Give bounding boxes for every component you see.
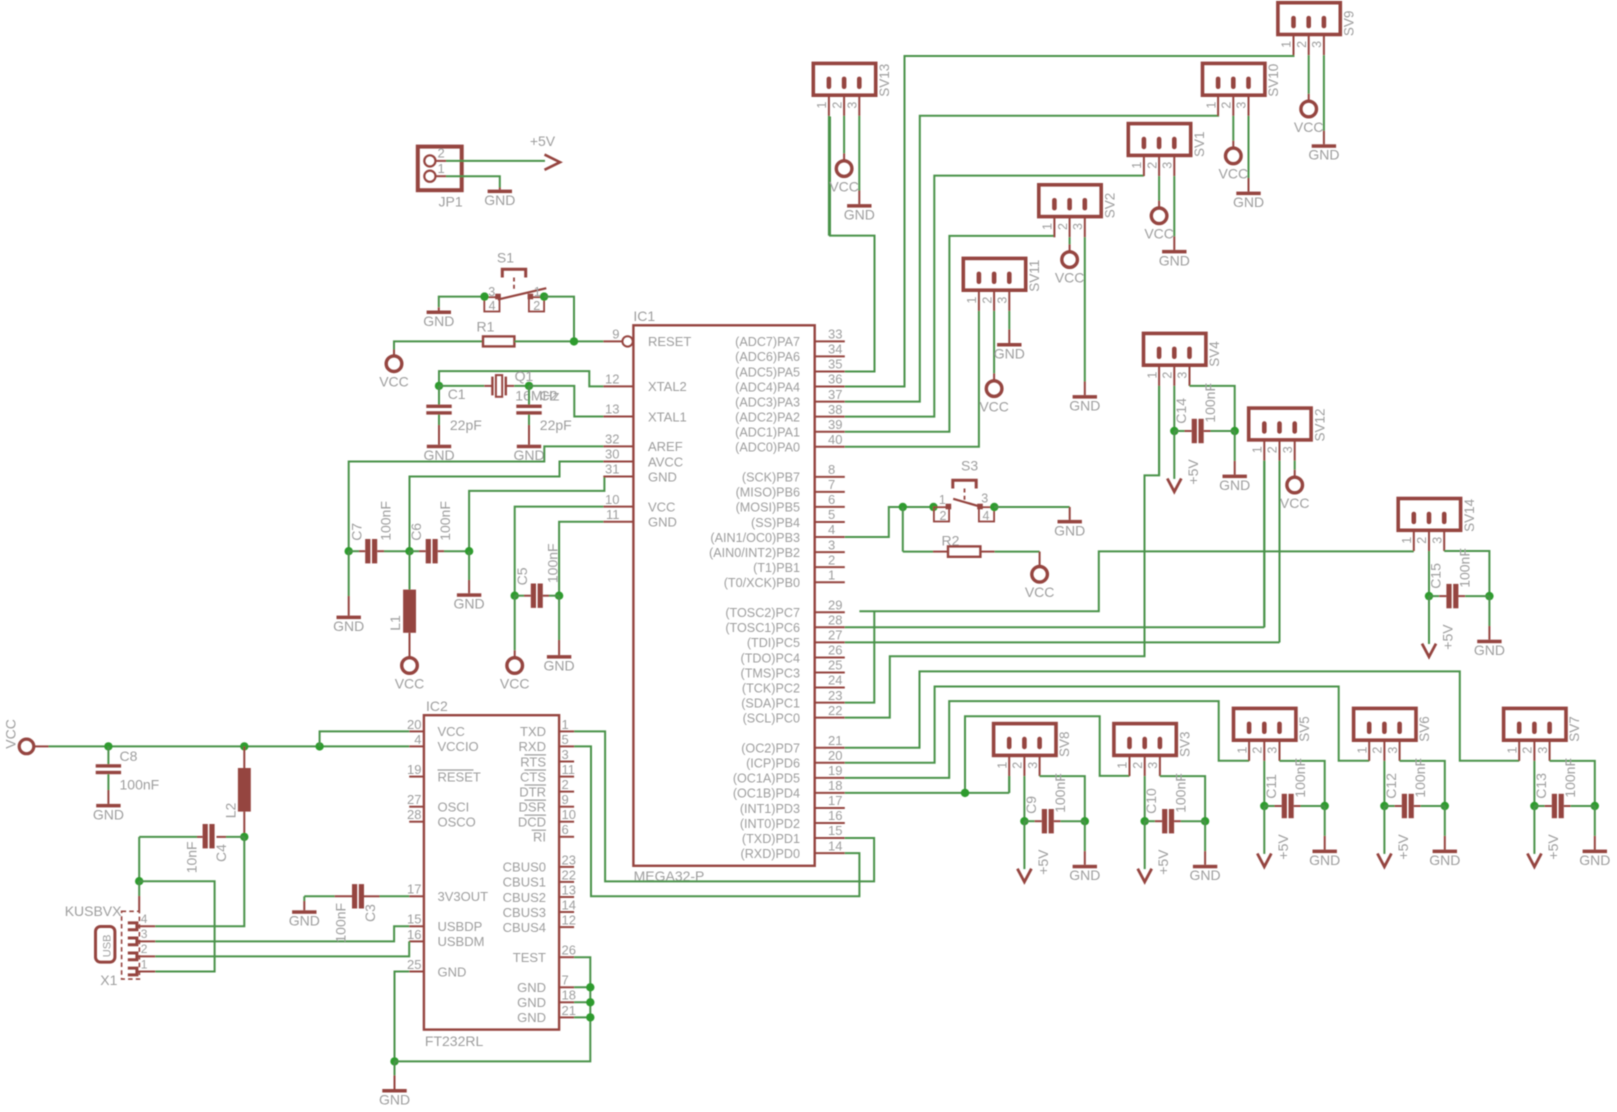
svg-text:100nF: 100nF — [120, 776, 160, 792]
junction dot C13 left — [1530, 802, 1538, 810]
junction dot C5 left — [511, 592, 519, 600]
crystal Q1 — [484, 385, 492, 387]
X1 pad 3 — [128, 938, 137, 945]
SV13 pin stubs — [828, 95, 830, 116]
svg-text:2: 2 — [1415, 537, 1429, 544]
wire SV11.3 to GND — [1008, 311, 1010, 330]
svg-text:26: 26 — [828, 643, 842, 658]
SV6 pin stubs — [1368, 740, 1370, 761]
SV10 pin stubs — [1217, 95, 1219, 116]
svg-text:GND: GND — [517, 980, 546, 995]
svg-text:SV2: SV2 — [1102, 193, 1117, 219]
IC2 pin 5 RXD — [559, 745, 574, 747]
wire C4 left down — [138, 837, 140, 881]
ground symbol below C1 — [427, 445, 451, 449]
svg-text:OSCO: OSCO — [438, 815, 476, 830]
supply +5V below SV5 — [1257, 854, 1271, 867]
IC IC2 FT232RL body — [424, 715, 559, 1029]
junction dot C12 left — [1380, 802, 1388, 810]
svg-text:(AIN1/OC0)PB3: (AIN1/OC0)PB3 — [710, 531, 800, 545]
svg-text:100nF: 100nF — [332, 903, 348, 943]
svg-text:IC1: IC1 — [633, 308, 655, 324]
svg-text:GND: GND — [1054, 522, 1085, 538]
wire C1 to GND — [438, 415, 440, 425]
SV1 pin stubs — [1143, 155, 1145, 176]
wire SV9.2 to VCC — [1308, 55, 1310, 94]
wire to GND symbol — [394, 1061, 396, 1075]
junction dot C6 right — [465, 547, 473, 555]
wire C11 to GND — [1324, 806, 1326, 836]
svg-text:(TCK)PC2: (TCK)PC2 — [742, 681, 800, 695]
svg-text:100nF: 100nF — [544, 543, 560, 583]
wire PA0 to SV11.1 — [845, 311, 979, 447]
svg-text:27: 27 — [828, 628, 842, 643]
svg-text:XTAL2: XTAL2 — [648, 379, 687, 394]
connector SV4 — [1144, 333, 1206, 365]
wire SV4.1 down to SCL bus — [1158, 386, 1160, 476]
ground symbol below C5 — [547, 655, 571, 659]
svg-text:100nF: 100nF — [1052, 773, 1068, 813]
svg-text:GND: GND — [333, 618, 364, 634]
junction dot C4/X1 node — [135, 877, 143, 885]
IC1 pin 2 (T1)PB1 — [815, 566, 845, 568]
junction dot PD4 branch — [961, 789, 969, 797]
svg-text:CBUS3: CBUS3 — [503, 905, 546, 920]
svg-text:22: 22 — [828, 703, 842, 718]
wire C10 to GND — [1204, 821, 1206, 851]
svg-text:GND: GND — [1579, 852, 1610, 868]
ground symbol below SV10 — [1236, 192, 1260, 196]
wire GND7 stub — [574, 986, 590, 988]
svg-text:SV11: SV11 — [1027, 260, 1042, 292]
svg-text:2: 2 — [1161, 372, 1175, 379]
svg-text:SV6: SV6 — [1417, 716, 1432, 742]
svg-text:SV14: SV14 — [1462, 498, 1477, 532]
S3 contact box pin 1/2 — [934, 507, 949, 521]
svg-text:RTS: RTS — [520, 754, 546, 769]
svg-text:(ADC2)PA2: (ADC2)PA2 — [735, 410, 800, 424]
wire XTAL2 net — [439, 371, 603, 386]
wire PC6 to SV12.1 — [845, 626, 1265, 628]
svg-text:9: 9 — [612, 327, 619, 342]
supply +5V below SV8 — [1017, 869, 1031, 882]
svg-text:3: 3 — [981, 491, 988, 505]
svg-text:(TMS)PC3: (TMS)PC3 — [741, 666, 800, 680]
wire GND18 stub — [574, 1001, 590, 1003]
wire XTAL1 net — [529, 386, 603, 417]
svg-text:DTR: DTR — [519, 784, 546, 799]
svg-text:(TOSC2)PC7: (TOSC2)PC7 — [725, 606, 800, 620]
svg-text:30: 30 — [605, 447, 619, 462]
ground symbol below SV2 — [1073, 395, 1097, 399]
supply +5V below SV7 — [1527, 854, 1541, 867]
svg-text:3: 3 — [1235, 102, 1249, 109]
SV3 pin stubs — [1129, 755, 1131, 776]
IC1 pin 38 (ADC2)PA2 — [815, 416, 845, 418]
svg-text:VCCIO: VCCIO — [438, 739, 479, 754]
ground symbol below C13 — [1583, 850, 1607, 854]
wire SV3.2 to cap — [1144, 776, 1146, 821]
svg-text:VCC: VCC — [1055, 269, 1085, 285]
IC1 pin 12 XTAL2 — [603, 385, 633, 387]
junction dot C11 right — [1321, 802, 1329, 810]
svg-text:2: 2 — [1521, 747, 1535, 754]
svg-text:GND: GND — [454, 596, 485, 612]
IC2 pin 9 DSR — [559, 806, 574, 808]
svg-text:2: 2 — [1266, 446, 1280, 453]
ground symbol below C8 — [96, 804, 120, 808]
svg-text:2: 2 — [940, 509, 947, 523]
wire C13 to +5V — [1533, 806, 1535, 854]
wire C15 to GND — [1488, 596, 1490, 626]
svg-text:+5V: +5V — [530, 133, 556, 149]
IC2 pin 25 GND — [409, 971, 424, 973]
IC1 pin 33 (ADC7)PA7 — [815, 340, 845, 342]
IC2 pin 20 VCC — [409, 730, 424, 732]
wire PD4 to SV8.1 and SV3.1 — [845, 792, 1009, 794]
connector SV2 — [1039, 185, 1101, 217]
wire SV3.3 to cap right — [1160, 776, 1205, 821]
svg-text:8: 8 — [828, 462, 835, 477]
junction dot C7 left — [345, 547, 353, 555]
svg-text:S3: S3 — [961, 457, 978, 473]
svg-text:4: 4 — [983, 509, 990, 523]
wire C3 to GND — [303, 896, 305, 901]
supply VCC right of R2 — [1032, 567, 1048, 583]
svg-text:20: 20 — [407, 717, 421, 732]
svg-text:1: 1 — [438, 161, 445, 176]
svg-text:37: 37 — [828, 387, 842, 402]
connector SV14 — [1398, 499, 1460, 531]
IC2 pin 7 GND — [559, 986, 574, 988]
svg-text:USBDM: USBDM — [438, 934, 485, 949]
USB symbol — [96, 927, 115, 963]
supply VCC below SV13 — [836, 161, 852, 177]
IC1 pin 24 (TCK)PC2 — [815, 687, 845, 689]
svg-text:VCC: VCC — [829, 178, 859, 194]
wire C5 right to GND — [558, 596, 560, 640]
svg-text:14: 14 — [562, 897, 576, 912]
ground symbol below C11 — [1313, 850, 1337, 854]
wire 3V3OUT to C3 — [380, 895, 410, 897]
IC1 pin 19 (OC1A)PD5 — [815, 777, 845, 779]
svg-text:R1: R1 — [477, 319, 495, 335]
svg-text:2: 2 — [1145, 162, 1159, 169]
IC2 pin 16 USBDM — [409, 940, 424, 942]
wire GND31 net — [469, 477, 604, 552]
supply +5V below SV6 — [1377, 854, 1391, 867]
SV12 pin stubs — [1263, 440, 1265, 461]
svg-text:(INT0)PD2: (INT0)PD2 — [740, 817, 800, 831]
svg-text:3: 3 — [996, 297, 1010, 304]
svg-text:(SS)PB4: (SS)PB4 — [751, 516, 800, 530]
svg-text:10: 10 — [605, 492, 619, 507]
svg-text:GND: GND — [93, 806, 124, 822]
ground symbol below C10 — [1193, 865, 1217, 869]
IC1 pin 3 (AIN0/INT2)PB2 — [815, 551, 845, 553]
wire SV13.3 to GND — [858, 116, 860, 191]
svg-text:36: 36 — [828, 372, 842, 387]
svg-text:GND: GND — [438, 964, 467, 979]
svg-text:(ADC4)PA4: (ADC4)PA4 — [735, 380, 800, 394]
svg-text:4: 4 — [141, 912, 148, 926]
wire X1 pin1 loop — [139, 881, 214, 971]
svg-text:24: 24 — [828, 673, 842, 688]
svg-text:19: 19 — [407, 762, 421, 777]
junction dot S3 pin1 — [929, 503, 937, 511]
S3 contact arrows — [946, 504, 952, 510]
S1 lever — [498, 288, 547, 299]
wire PA2 to SV1.1 — [845, 176, 1144, 417]
wire PD7 to SV7.1 — [845, 671, 1519, 760]
IC1 pin 20 (ICP)PD6 — [815, 762, 845, 764]
svg-text:28: 28 — [407, 807, 421, 822]
svg-text:2: 2 — [1131, 762, 1145, 769]
IC2 pin 14 CBUS3 — [559, 911, 574, 913]
svg-text:22pF: 22pF — [540, 417, 572, 433]
wire C10 to +5V — [1144, 821, 1146, 869]
wire GND pin11 net — [559, 522, 603, 596]
junction dot VCC20 jog — [315, 742, 323, 750]
wire VCC to R1 — [393, 350, 395, 357]
svg-text:17: 17 — [407, 882, 421, 897]
wire C12 to +5V — [1383, 806, 1385, 854]
svg-text:GND: GND — [1309, 852, 1340, 868]
SV13 pin1 wire down — [828, 116, 830, 236]
svg-text:SV12: SV12 — [1312, 408, 1327, 441]
svg-text:(TDO)PC4: (TDO)PC4 — [741, 651, 800, 665]
svg-text:3: 3 — [828, 537, 835, 552]
junction dot C15 left — [1425, 592, 1433, 600]
svg-text:100nF: 100nF — [1457, 548, 1473, 588]
svg-text:3: 3 — [1026, 762, 1040, 769]
wire C14 to GND — [1234, 431, 1236, 461]
wire SV5.2 to cap — [1263, 761, 1265, 806]
S1 contact arrows — [495, 294, 501, 300]
X1 pad 1 — [128, 968, 137, 975]
IC2 pin 3 RTS — [559, 761, 574, 763]
svg-text:C4: C4 — [213, 844, 229, 862]
wire SV13.2 to VCC — [843, 116, 845, 153]
junction dot C8 tap — [104, 742, 112, 750]
wire R1 to IC1 RESET — [514, 340, 603, 342]
svg-text:+5V: +5V — [1035, 849, 1051, 875]
wire SV12.3 to VCC — [1294, 461, 1296, 470]
svg-text:(ADC5)PA5: (ADC5)PA5 — [735, 365, 800, 379]
IC2 pin 23 CBUS0 — [559, 866, 574, 868]
supply VCC below SV10 — [1226, 148, 1242, 164]
svg-text:VCC: VCC — [1294, 119, 1324, 135]
wire GND21 stub — [574, 1016, 590, 1018]
svg-text:7: 7 — [562, 973, 569, 988]
svg-text:GND: GND — [1069, 867, 1100, 883]
wire SV12.2 down — [1279, 461, 1281, 643]
IC1 pin 14 (RXD)PD0 — [815, 852, 845, 854]
IC1 RESET pin stub with bubble — [603, 340, 622, 342]
wire C12 to GND — [1444, 806, 1446, 836]
svg-text:(TDI)PC5: (TDI)PC5 — [747, 636, 800, 650]
svg-text:3: 3 — [1281, 446, 1295, 453]
IC2 pin 1 TXD — [559, 730, 574, 732]
IC2 pin 26 TEST — [559, 956, 574, 958]
S1 actuator dashed link — [513, 278, 515, 292]
junction dot C10 left — [1141, 817, 1149, 825]
svg-text:GND: GND — [1190, 867, 1221, 883]
svg-text:22: 22 — [562, 867, 576, 882]
svg-text:(SCK)PB7: (SCK)PB7 — [742, 471, 800, 485]
ground symbol below C9 — [1073, 865, 1097, 869]
X1 pad 4 — [128, 923, 137, 930]
svg-text:(OC1A)PD5: (OC1A)PD5 — [733, 772, 800, 786]
svg-text:34: 34 — [828, 342, 842, 357]
IC2 pin 10 DCD — [559, 821, 574, 823]
IC1 pin 5 (SS)PB4 — [815, 521, 845, 523]
svg-text:1: 1 — [1116, 762, 1130, 769]
IC2 pin 21 GND — [559, 1016, 574, 1018]
IC1 pin 28 (TOSC1)PC6 — [815, 626, 845, 628]
ground symbol below IC2 — [382, 1089, 406, 1093]
svg-text:6: 6 — [828, 492, 835, 507]
svg-text:VCC: VCC — [1025, 584, 1055, 600]
svg-text:2: 2 — [438, 146, 445, 161]
wire C9 to GND — [1084, 821, 1086, 851]
svg-text:2: 2 — [1220, 102, 1234, 109]
svg-text:(ADC7)PA7: (ADC7)PA7 — [735, 335, 800, 349]
wire jog to IC2 VCC pin20 — [320, 731, 410, 746]
IC1 pin 27 (TDI)PC5 — [815, 641, 845, 643]
svg-text:4: 4 — [489, 299, 496, 313]
IC1 pin 18 (OC1B)PD4 — [815, 792, 845, 794]
svg-text:31: 31 — [605, 462, 619, 477]
junction dot RESET net — [570, 337, 578, 345]
svg-text:KUSBVX: KUSBVX — [65, 903, 122, 919]
svg-text:23: 23 — [562, 852, 576, 867]
wire C11 to +5V — [1263, 806, 1265, 854]
IC1 pin 22 (SCL)PC0 — [815, 717, 845, 719]
svg-text:28: 28 — [828, 613, 842, 628]
svg-text:C3: C3 — [362, 904, 378, 922]
ground symbol below C3 — [292, 910, 316, 914]
svg-text:VCC: VCC — [1144, 226, 1174, 242]
svg-text:1: 1 — [1280, 41, 1294, 48]
svg-text:13: 13 — [562, 882, 576, 897]
svg-text:RXD: RXD — [519, 739, 546, 754]
svg-text:5: 5 — [562, 732, 569, 747]
IC1 pin 34 (ADC6)PA6 — [815, 355, 845, 357]
svg-text:3: 3 — [1310, 41, 1324, 48]
svg-text:VCC: VCC — [3, 719, 19, 749]
junction dot C13 right — [1591, 802, 1599, 810]
svg-text:GND: GND — [484, 192, 515, 208]
svg-text:VCC: VCC — [979, 398, 1009, 414]
svg-text:SV4: SV4 — [1207, 341, 1222, 367]
wire SV8.1 down — [1008, 776, 1010, 793]
svg-text:4: 4 — [828, 522, 835, 537]
svg-text:Q1: Q1 — [515, 368, 534, 384]
ground symbol below S1 left — [438, 307, 440, 310]
wire S3 to GND — [994, 506, 1069, 508]
svg-text:GND: GND — [1159, 252, 1190, 268]
svg-text:39: 39 — [828, 417, 842, 432]
wire C13 to GND — [1594, 806, 1596, 836]
supply VCC below SV12 — [1287, 477, 1303, 493]
wire PC0 SCL net to SV4.1 — [845, 386, 1159, 718]
svg-text:4: 4 — [414, 732, 421, 747]
svg-text:(ADC1)PA1: (ADC1)PA1 — [735, 426, 800, 440]
svg-text:2: 2 — [980, 297, 994, 304]
svg-text:USB: USB — [101, 935, 113, 958]
wire PD5 to SV5.1 — [845, 701, 1249, 778]
connector SV13 — [813, 63, 875, 95]
svg-text:C11: C11 — [1263, 774, 1279, 799]
wire SV5.3 to cap right — [1280, 761, 1325, 806]
svg-text:3: 3 — [1430, 537, 1444, 544]
svg-text:21: 21 — [562, 1003, 576, 1018]
svg-text:GND: GND — [379, 1091, 410, 1107]
ground symbol right of S3 — [1058, 520, 1082, 524]
svg-text:CBUS2: CBUS2 — [503, 890, 546, 905]
svg-text:GND: GND — [544, 658, 575, 674]
svg-text:1: 1 — [995, 762, 1009, 769]
svg-text:1: 1 — [1130, 162, 1144, 169]
svg-text:3: 3 — [1176, 372, 1190, 379]
IC2 pin 18 GND — [559, 1001, 574, 1003]
junction dot C1/Q1 — [435, 382, 443, 390]
svg-text:(TXD)PD1: (TXD)PD1 — [742, 832, 800, 846]
IC1 pin 7 (MISO)PB6 — [815, 491, 845, 493]
wire X1 shield stub — [138, 881, 140, 896]
IC2 pin 2 DTR — [559, 791, 574, 793]
svg-text:1: 1 — [1251, 446, 1265, 453]
svg-text:+5V: +5V — [1155, 849, 1171, 875]
svg-text:VCC: VCC — [648, 499, 675, 514]
ground symbol below C7 — [337, 616, 361, 620]
wire S1.3 to GND — [439, 297, 485, 308]
svg-text:AREF: AREF — [648, 439, 683, 454]
svg-text:(T1)PB1: (T1)PB1 — [753, 561, 800, 575]
connector SV12 — [1249, 408, 1311, 440]
svg-text:SV8: SV8 — [1057, 731, 1072, 757]
IC1 pin 30 AVCC — [603, 461, 633, 463]
svg-text:VCC: VCC — [379, 374, 409, 390]
IC1 pin 1 (T0/XCK)PB0 — [815, 581, 845, 583]
svg-text:11: 11 — [562, 762, 576, 777]
svg-text:20: 20 — [828, 748, 842, 763]
IC2 pin 15 USBDP — [409, 925, 424, 927]
svg-text:GND: GND — [289, 913, 320, 929]
IC1 pin 15 (TXD)PD1 — [815, 837, 845, 839]
junction dot L2/C4 — [240, 833, 248, 841]
wire PC1 SDA net to SV14.1 — [845, 611, 875, 702]
junction dot C10 right — [1201, 817, 1209, 825]
svg-text:JP1: JP1 — [439, 194, 463, 210]
svg-text:AVCC: AVCC — [648, 454, 683, 469]
svg-text:GND: GND — [648, 515, 677, 530]
connector SV11 — [963, 258, 1025, 290]
S3 lever — [953, 499, 981, 507]
svg-text:100nF: 100nF — [1412, 758, 1428, 798]
junction dot C14 right — [1231, 427, 1239, 435]
svg-text:SV7: SV7 — [1567, 716, 1582, 742]
IC2 pin 27 OSCI — [409, 806, 424, 808]
wire SV4.3 to cap right — [1190, 386, 1235, 431]
svg-text:GND: GND — [1219, 477, 1250, 493]
wire VCC pin10 net — [515, 507, 604, 596]
svg-text:3: 3 — [1146, 762, 1160, 769]
wire SV2.3 to GND — [1084, 237, 1086, 381]
svg-text:6: 6 — [562, 822, 569, 837]
svg-text:TXD: TXD — [520, 724, 546, 739]
